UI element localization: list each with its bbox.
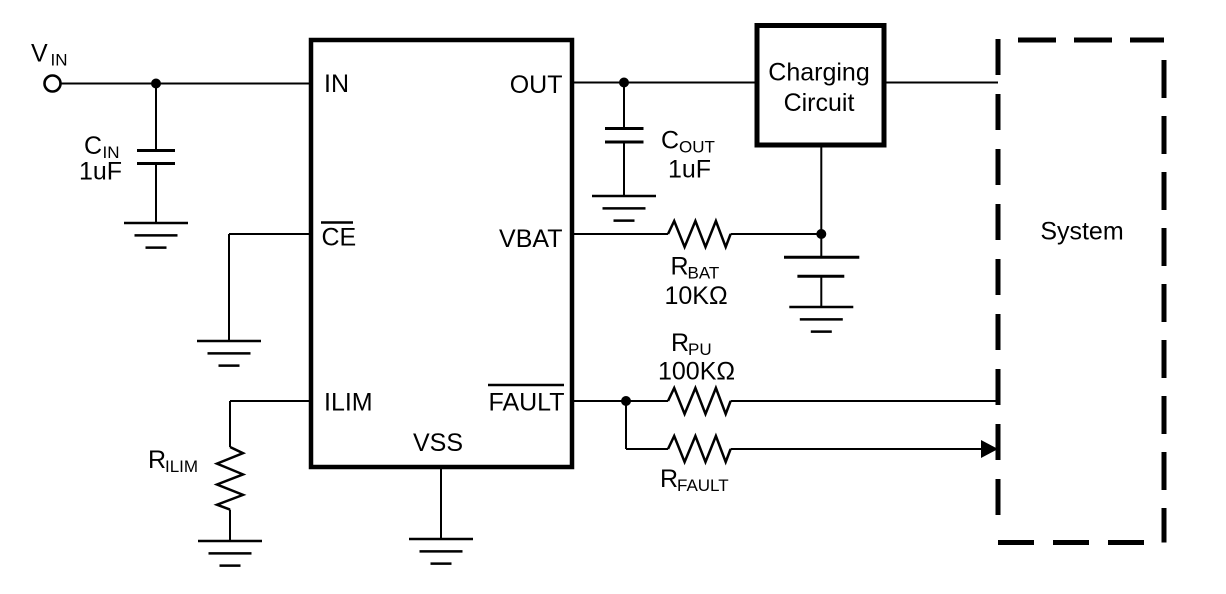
svg-text:System: System [1040,218,1123,246]
svg-text:OUT: OUT [679,138,715,157]
svg-text:Circuit: Circuit [784,89,855,117]
svg-text:FAULT: FAULT [489,389,565,417]
svg-text:1uF: 1uF [79,158,122,186]
svg-text:1uF: 1uF [668,156,711,184]
svg-text:R: R [148,446,166,474]
svg-text:ILIM: ILIM [165,457,198,476]
svg-text:V: V [31,40,48,68]
svg-text:PU: PU [688,340,712,359]
svg-text:OUT: OUT [510,71,563,99]
svg-text:IN: IN [51,51,68,70]
svg-text:R: R [671,329,689,357]
svg-text:C: C [84,132,102,160]
svg-text:IN: IN [324,70,349,98]
svg-text:CE: CE [322,224,357,252]
svg-text:Charging: Charging [768,59,869,87]
svg-text:VSS: VSS [413,429,463,457]
svg-text:VBAT: VBAT [499,225,562,253]
svg-text:ILIM: ILIM [324,389,373,417]
svg-text:R: R [671,253,689,281]
svg-text:BAT: BAT [688,264,720,283]
svg-text:R: R [660,465,678,493]
svg-text:100KΩ: 100KΩ [658,358,735,386]
svg-text:10KΩ: 10KΩ [665,282,728,310]
svg-text:FAULT: FAULT [677,476,729,495]
svg-text:C: C [661,127,679,155]
